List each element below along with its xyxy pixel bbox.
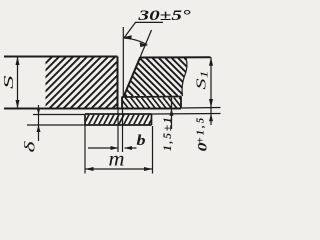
right plate break edge <box>182 58 187 96</box>
b extension line left <box>117 109 119 153</box>
left plate top edge <box>4 56 118 58</box>
shim left edge <box>121 97 123 109</box>
dimension S line <box>17 57 19 109</box>
right plate bevel edge <box>124 58 141 98</box>
backing strip top edge <box>85 113 152 115</box>
backing strip top extension right (line B) <box>152 113 221 116</box>
left plate and shim bottom edge (plane A) <box>4 108 181 110</box>
dimension S arrow down <box>16 100 20 109</box>
angle leader line <box>124 22 163 37</box>
b dimension left arrow <box>111 146 119 150</box>
right plate hatching <box>37 58 229 96</box>
svg-text:δ: δ <box>23 140 39 153</box>
arc arrowhead right <box>140 42 148 47</box>
b dimension line left tail <box>88 147 118 149</box>
b dimension line right tail <box>125 147 137 149</box>
backing strip bottom edge <box>85 124 152 126</box>
m extension line right <box>152 126 154 174</box>
angle dimension arc <box>124 38 147 45</box>
m dimension line <box>85 168 153 170</box>
dimension delta arrow up at strip bottom <box>37 125 41 132</box>
m extension line left <box>84 125 86 174</box>
svg-text:b: b <box>137 133 147 149</box>
b extension line right <box>122 97 124 152</box>
dimension S arrow up <box>16 57 20 66</box>
b dimension right arrow <box>125 146 133 150</box>
backing strip bottom extension left <box>27 124 85 126</box>
vertical reference line for angle <box>122 27 124 96</box>
dimension 1,5±1 line <box>171 97 173 129</box>
backing strip hatching <box>74 115 164 125</box>
dimension 0+1,5 arrow up at line B <box>209 114 213 122</box>
svg-text:m: m <box>109 148 125 170</box>
svg-text:30±5°: 30±5° <box>137 8 190 24</box>
arc arrowhead left <box>124 35 132 39</box>
shim right edge <box>180 97 182 109</box>
right plate top edge <box>140 56 211 58</box>
backing strip left edge <box>84 114 86 125</box>
dimension delta line <box>38 105 40 141</box>
dimension S1 arrow up <box>209 57 213 65</box>
backing strip right edge <box>151 114 153 125</box>
svg-text:1,5±1: 1,5±1 <box>162 116 174 151</box>
bevel extension line <box>140 30 152 58</box>
m arrow left <box>85 167 94 171</box>
backing strip top extension left <box>33 114 85 116</box>
svg-text:S: S <box>2 76 17 90</box>
dimension delta arrow down at strip top <box>37 108 41 115</box>
dimension S1 arrow down <box>209 99 213 108</box>
plane A extension right <box>181 107 221 110</box>
svg-text:+1,5: +1,5 <box>195 116 207 144</box>
left plate right edge <box>117 57 119 109</box>
right plate bottom / shim top edge <box>122 96 182 99</box>
shim hatching <box>98 98 193 108</box>
dimension 1,5±1 arrow up at plane A <box>170 109 174 116</box>
left plate hatching <box>0 57 227 108</box>
m arrow right <box>144 167 153 171</box>
dimension S1 line <box>210 57 212 125</box>
